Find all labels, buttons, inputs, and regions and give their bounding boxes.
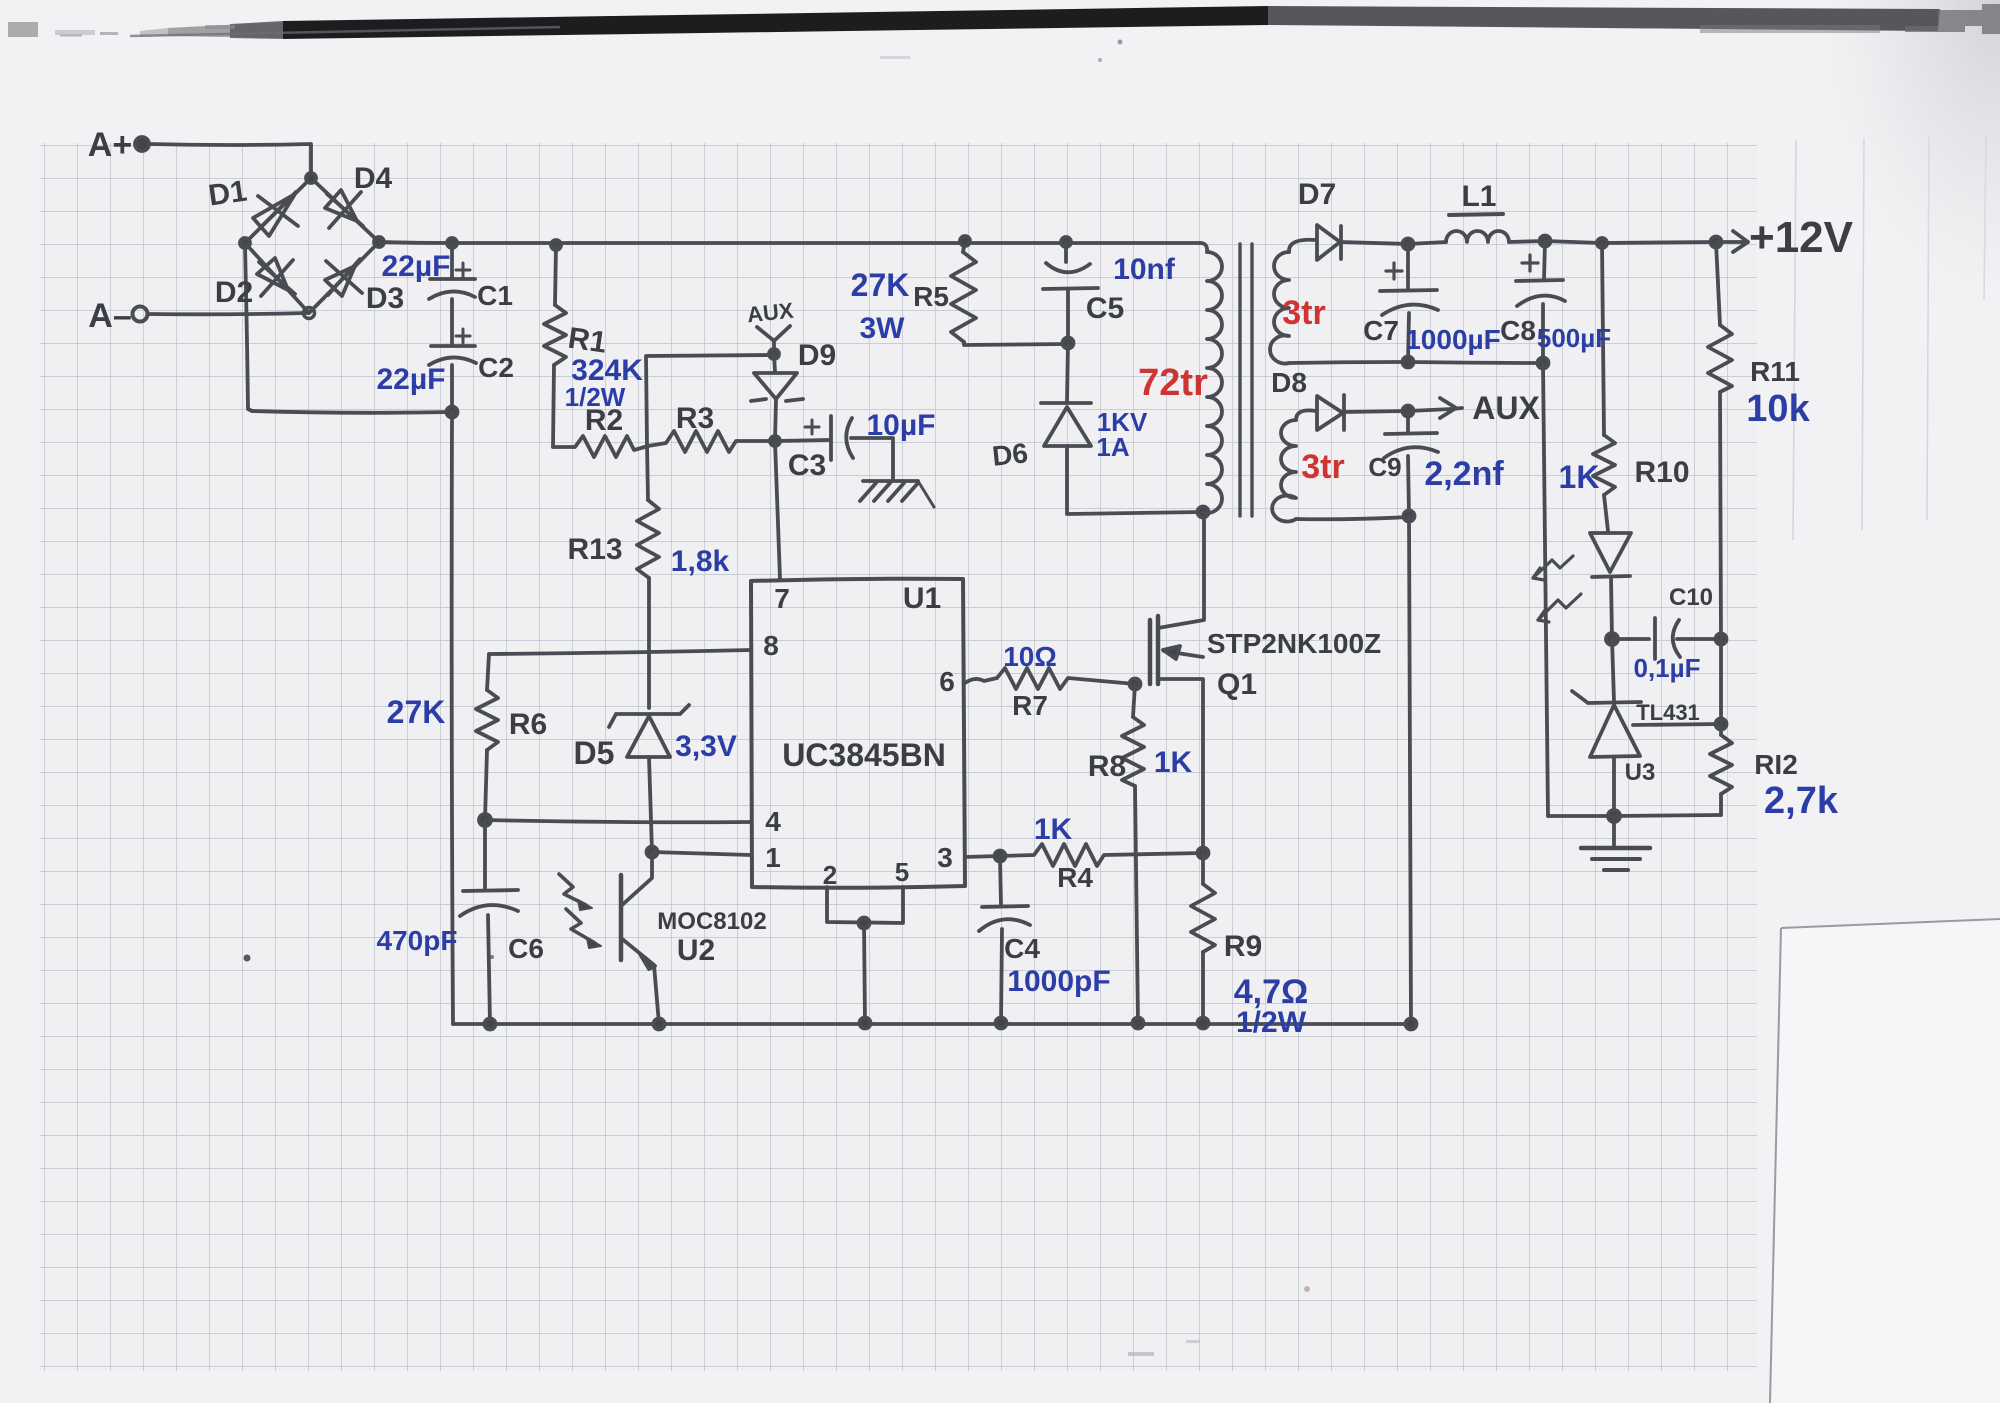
node bridge left [240,238,250,248]
svg-text:D8: D8 [1271,367,1307,398]
svg-text:L1: L1 [1461,180,1496,213]
svg-text:+12V: +12V [1749,213,1854,262]
diode D9 [751,354,803,441]
capacitor C9 [1384,411,1438,516]
node regulator bottom [1608,810,1620,822]
svg-text:RI2: RI2 [1754,749,1798,780]
svg-text:3tr: 3tr [1301,448,1344,486]
resistor R11 [1708,242,1732,639]
+12V output arrow [1716,231,1748,252]
capacitor C10 [1612,618,1721,659]
resistor R12 [1710,639,1732,815]
svg-text:1000µF: 1000µF [1405,324,1501,355]
label AUX (top, above D9) arrow [757,326,790,352]
wire D8 to AUX arrow [1344,409,1452,412]
node R6/C6/pin4 junction [479,814,491,826]
wire A+ to bridge top [149,144,311,176]
node pin2/5 join [859,918,870,929]
svg-text:A–: A– [88,297,131,335]
wire C7 bottom to C8 bottom [1408,362,1543,363]
wire pin 6 to R7 [965,678,997,683]
svg-text:2,7k: 2,7k [1764,780,1839,822]
svg-text:10µF: 10µF [867,409,936,442]
svg-text:D4: D4 [354,162,393,195]
optocoupler light arrows (into U2) [559,874,601,948]
node D9 anode [769,349,779,359]
faint margin lines top right [1793,134,1986,540]
svg-text:1K: 1K [1559,459,1600,495]
node pin3 / C4 junction [995,851,1006,862]
wire C9 node down to bus [1409,516,1411,1024]
svg-text:D1: D1 [206,175,249,213]
ground (regulator) [1581,816,1650,870]
svg-text:C10: C10 [1669,584,1713,611]
transformer primary winding (72tr) [1200,243,1222,513]
svg-text:D9: D9 [798,339,836,372]
node top rail / C5 [1061,237,1071,247]
svg-text:3,3V: 3,3V [675,730,737,763]
svg-text:1K: 1K [1034,813,1073,846]
diode D4 (bridge upper-right) [311,178,379,242]
node gate / R8 junction [1130,679,1141,690]
svg-text:C8: C8 [1500,315,1536,346]
svg-text:C4: C4 [1004,933,1040,964]
node D9 / R3 / C3 junction [770,436,780,446]
node C8 top [1540,236,1551,247]
svg-text:U2: U2 [677,934,715,967]
node C6 bottom on bus [485,1019,496,1030]
svg-text:A+: A+ [88,126,132,164]
diode D8 [1317,395,1344,430]
svg-text:C3: C3 [788,449,826,482]
wire bottom node horizontal [1548,815,1721,816]
svg-text:UC3845BN: UC3845BN [782,737,946,773]
svg-text:D3: D3 [366,282,404,315]
node drain / transformer bottom [1198,507,1209,518]
wire pin 8 to R6 top [489,650,751,654]
svg-text:1K: 1K [1154,746,1193,779]
svg-text:AUX: AUX [746,298,795,328]
node C8 bottom [1538,358,1549,369]
svg-text:8: 8 [763,630,779,661]
node top rail / C1 [447,238,457,248]
AUX output arrow [1440,398,1462,418]
node C9 top [1403,406,1414,417]
resistor R3 [648,431,773,452]
svg-text:C7: C7 [1363,315,1399,346]
node A+ terminal [135,137,149,151]
wire pin 1 [652,852,751,855]
bottom-right overlapping white sheet [1770,919,2000,1403]
svg-text:D5: D5 [574,735,615,771]
resistor R6 [476,654,498,820]
svg-text:D2: D2 [215,276,253,309]
svg-text:72tr: 72tr [1138,362,1208,404]
node R11 top [1711,237,1722,248]
LED (optocoupler diode, U2 side) [1590,533,1631,639]
ground (C3) [860,481,934,507]
svg-text:0,1µF: 0,1µF [1633,653,1700,683]
svg-text:1000pF: 1000pF [1007,965,1110,998]
transformer secondary winding bottom (3tr) [1272,410,1409,521]
transistor U2 (MOC8102 photo-transistor) [621,852,659,1024]
svg-text:R13: R13 [567,533,622,566]
node R9 bottom on bus [1198,1018,1209,1029]
svg-text:Q1: Q1 [1217,668,1257,701]
resistor R10 [1593,243,1615,531]
resistor R9 [1191,853,1215,1023]
svg-text:AUX: AUX [1472,390,1540,426]
node bus right end [1406,1019,1417,1030]
svg-text:C2: C2 [478,352,514,383]
svg-text:D6: D6 [991,437,1030,472]
svg-text:D7: D7 [1298,178,1336,211]
svg-text:500µF: 500µF [1537,323,1611,353]
node R4 / source junction [1198,848,1209,859]
inductor L1 [1408,214,1545,244]
wire R2/R3 junction up and over to D9 anode [646,355,772,444]
wire top rail (bridge to transformer) [452,241,1200,245]
node bridge top [306,173,316,183]
svg-text:R10: R10 [1634,456,1689,489]
svg-text:R7: R7 [1012,690,1048,721]
svg-text:1A: 1A [1096,432,1129,462]
svg-text:6: 6 [939,666,955,697]
capacitor C3 [775,416,893,481]
resistor R5 [951,241,1067,345]
svg-text:27K: 27K [851,267,910,303]
node R10 top [1597,238,1607,248]
wire pin 3 to R4 [965,856,1000,857]
node bridge bottom (open) [304,308,315,319]
node D5/U2/pin1 junction [647,847,658,858]
stray specks [244,955,251,962]
diode D2 (bridge lower-left) [245,243,309,313]
svg-text:22µF: 22µF [377,363,446,396]
zener D5 (3.3V) [609,705,689,852]
svg-text:C1: C1 [477,280,513,311]
top scanner band: gray right part [1268,6,1940,31]
wire A- to bridge bottom [148,313,307,314]
node LED cathode / C10 left [1606,633,1618,645]
resistor R2 [553,436,648,457]
svg-text:TL431: TL431 [1636,700,1700,725]
node C7 top [1403,239,1414,250]
wire +12V rail [1545,241,1716,243]
wire pins 2,5 to bus [827,887,903,1023]
wire left bus down [452,412,453,1024]
node TL431 ref / R12 top [1716,719,1727,730]
svg-text:1/2W: 1/2W [1236,1006,1307,1039]
top scanner band: black left part [283,6,1268,39]
svg-text:27K: 27K [387,694,446,730]
svg-text:R9: R9 [1224,930,1262,963]
svg-text:7: 7 [774,583,790,614]
svg-text:STP2NK100Z: STP2NK100Z [1207,628,1381,659]
svg-text:1,8k: 1,8k [671,545,730,578]
diode D1 (bridge upper-left) [245,178,311,243]
svg-text:R8: R8 [1088,750,1126,783]
svg-text:R3: R3 [676,402,714,435]
svg-text:470pF: 470pF [377,925,458,956]
capacitor C4 [979,856,1030,1023]
svg-text:2: 2 [823,860,837,890]
svg-text:10Ω: 10Ω [1003,641,1057,672]
svg-text:C6: C6 [508,933,544,964]
svg-text:22µF: 22µF [382,250,451,283]
wire bottom rail to C2 bottom [252,411,452,413]
speckled lead-in of band [168,22,283,38]
svg-text:R5: R5 [913,281,949,312]
svg-text:10nf: 10nf [1113,253,1176,286]
node C2 bottom junction [447,407,458,418]
resistor R4 [1000,844,1203,866]
svg-text:U1: U1 [903,582,941,615]
shunt regulator U3 (TL431) [1572,639,1721,816]
wire bridge right vertex to top rail [379,242,452,243]
capacitor C7 [1380,244,1438,362]
svg-text:R4: R4 [1057,862,1093,893]
svg-text:5: 5 [895,857,909,887]
capacitor C2 [429,329,476,412]
resistor R13 [637,444,659,708]
svg-text:U3: U3 [1625,759,1656,786]
capacitor C5 [1043,242,1098,343]
wire junction down to U1 pin 7 [775,441,780,579]
resistor R7 [997,668,1135,689]
svg-text:1: 1 [765,842,781,873]
svg-text:3W: 3W [860,312,906,345]
svg-text:MOC8102: MOC8102 [657,908,766,935]
wire bridge left vertex down to bottom rail [245,245,252,411]
transformer secondary winding top (3tr) [1270,240,1408,364]
node C4 bottom on bus [996,1018,1007,1029]
transistor Q1 (STP2NK100Z MOSFET) [1150,513,1204,852]
node C7 bottom [1403,357,1414,368]
node top rail / R1 [551,240,561,250]
node R8 bottom on bus [1133,1018,1144,1029]
diode D6 [1041,343,1202,514]
node bridge right [374,237,384,247]
scanner shade top-right corner [1830,0,2000,280]
node U2 emitter on bus [654,1019,665,1030]
resistor R1 [544,245,566,447]
svg-text:C5: C5 [1086,292,1124,325]
node A- terminal [133,307,148,322]
svg-text:R11: R11 [1750,356,1800,387]
svg-text:3tr: 3tr [1282,294,1325,332]
capacitor C6 [460,820,518,1024]
svg-text:R6: R6 [509,708,547,741]
svg-text:2,2nf: 2,2nf [1424,455,1504,493]
wire bottom bus [453,1024,1411,1025]
node top rail / R5 [960,236,970,246]
capacitor C8 [1516,241,1565,363]
node C9 bottom / winding [1404,511,1415,522]
wire pin 4 [485,820,751,822]
node bus/U1 ground [860,1018,871,1029]
node C10 right on R11 column [1716,634,1727,645]
op-amp U1 (UC3845BN box) [751,579,965,888]
svg-text:10k: 10k [1746,388,1810,430]
svg-text:3: 3 [937,842,953,873]
diode D3 (bridge lower-right) [309,242,379,313]
transformer core [1240,244,1252,516]
capacitor C1 [429,243,475,345]
wire C8 bottom down past AUX to regulator node [1543,363,1548,816]
diode D7 [1317,225,1408,260]
optocoupler LED emission arrows [1533,556,1581,622]
node C5/R5/D6 junction [1063,338,1074,349]
svg-text:C9: C9 [1368,452,1401,482]
svg-text:4: 4 [765,806,781,837]
svg-text:1/2W: 1/2W [565,382,626,412]
resistor R8 [1122,684,1144,1023]
